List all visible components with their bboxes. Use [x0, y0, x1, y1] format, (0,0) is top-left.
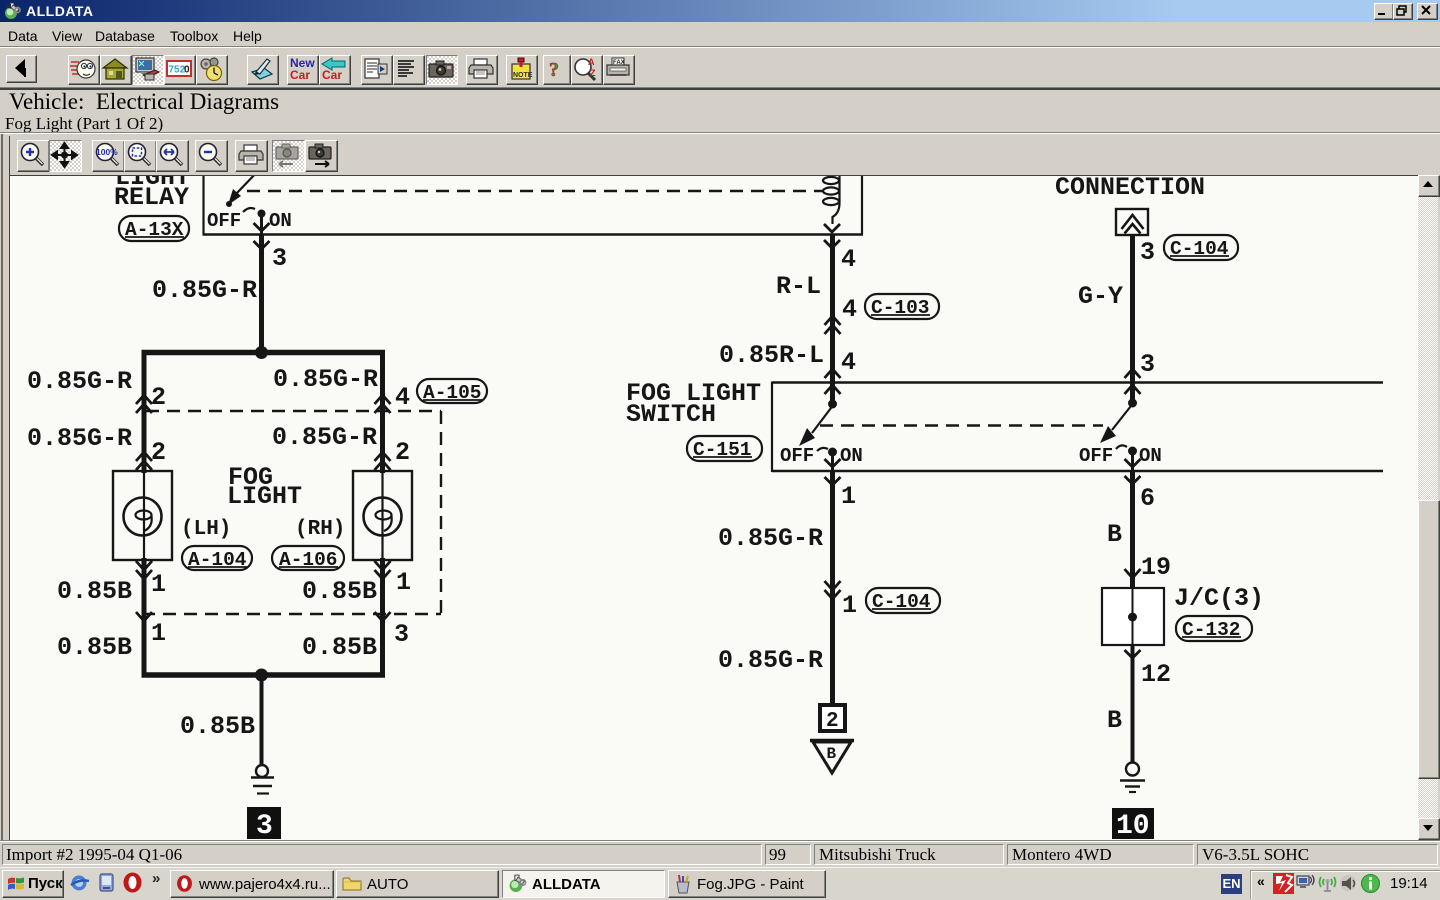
connector chevrons up on left wire [136, 395, 152, 404]
connector pass chevron down [824, 224, 840, 232]
tray: antivirus red [1273, 873, 1294, 894]
svg-text:A: A [588, 57, 595, 67]
7520 icon [164, 55, 196, 85]
switch S1 input contact node [828, 400, 837, 409]
start button [2, 870, 64, 898]
ground reference tag 10 [1112, 808, 1154, 842]
back button [6, 55, 37, 83]
connector label C-132 [1176, 616, 1252, 641]
fog light RH lamp E2 box [353, 471, 412, 560]
zoom out [195, 140, 228, 172]
window buttons [1374, 3, 1394, 20]
svg-text:4: 4 [842, 295, 857, 324]
wire S1 to ground tag (0.85G-R) [830, 471, 835, 705]
inter-system connector box with chevrons [1116, 209, 1148, 235]
switch S2 arm [1112, 404, 1133, 430]
switch S2 arm arrowhead [1100, 426, 1116, 443]
task button 2: AUTO folder [336, 870, 499, 898]
gears-clock icon [196, 55, 228, 85]
svg-text:0.85G-R: 0.85G-R [27, 424, 132, 453]
svg-text:B: B [1107, 706, 1122, 735]
wire S2 to junction block (B) [1130, 471, 1135, 589]
svg-text:0.85B: 0.85B [180, 712, 255, 741]
svg-text:0.85R-L: 0.85R-L [719, 341, 824, 370]
relay K1 coil-to-contact dashed link [247, 190, 822, 192]
tray: info [1360, 873, 1381, 894]
connector chevron up below switch box top [1125, 385, 1141, 394]
svg-text:1: 1 [151, 619, 166, 648]
switch S1 arm [812, 406, 833, 433]
svg-text:0.85G-R: 0.85G-R [27, 367, 132, 396]
tray: wifi antenna [1317, 873, 1338, 894]
svg-text:100%: 100% [96, 147, 118, 157]
pan tool (pressed) [49, 140, 82, 172]
svg-text:CONNECTION: CONNECTION [1055, 175, 1205, 202]
relay K1 OFF contact dot [226, 201, 232, 207]
connector pass chevron down [1125, 650, 1141, 658]
svg-text:2: 2 [395, 438, 410, 467]
svg-text:LIGHT: LIGHT [227, 482, 302, 511]
connector chevrons down below LH lamp [136, 561, 152, 570]
connector label C-104 [866, 588, 940, 613]
svg-text:3: 3 [1140, 350, 1155, 379]
connector pass chevron down [825, 459, 841, 467]
wire connector to switch (G-Y) [1130, 235, 1135, 403]
100% zoom [92, 140, 125, 172]
svg-text:4: 4 [395, 383, 410, 412]
relay K1 box right edge [861, 170, 863, 234]
fit width [156, 140, 189, 172]
wire S2 output upper segment [1131, 451, 1134, 472]
app icon [4, 2, 21, 20]
svg-text:0.85B: 0.85B [302, 577, 377, 606]
svg-text:OFF: OFF [207, 210, 241, 232]
svg-text:2: 2 [151, 383, 166, 412]
junction node bottom of fog light loop [255, 669, 268, 682]
ground reference tag 2 box [820, 705, 845, 733]
language indicator EN [1221, 874, 1242, 894]
fog light switch S1 box top edge [772, 381, 1383, 383]
connector chevrons down C-104 [825, 581, 841, 590]
svg-text:0.85G-R: 0.85G-R [272, 423, 377, 452]
svg-text:(RH): (RH) [295, 518, 345, 541]
svg-text:B: B [1107, 520, 1122, 549]
tray inset [1250, 870, 1440, 899]
svg-text:12: 12 [1141, 660, 1171, 689]
connector chevrons up above RH lamp [375, 452, 391, 461]
tray: network monitor [1296, 874, 1315, 893]
monitor-camera (pressed) [132, 55, 164, 85]
fog light loop bottom wire [142, 672, 386, 678]
zoom-in [17, 140, 50, 172]
svg-text:J/C(3): J/C(3) [1174, 584, 1264, 613]
relay K1 box left edge [202, 170, 204, 234]
svg-text:ON: ON [269, 210, 292, 232]
svg-text:Car: Car [322, 68, 342, 82]
camera prev (pressed/disabled) [272, 140, 305, 172]
wire relay output pin 3 upper segment [260, 213, 263, 236]
connector chevrons up C-103 [825, 316, 841, 325]
svg-text:OFF: OFF [1079, 445, 1113, 467]
switch linkage dashed line [820, 424, 1103, 426]
search A-Z icon [571, 55, 603, 85]
vertical scrollbar [1418, 175, 1438, 838]
switch S1 ON contact node [828, 448, 837, 457]
svg-text:4: 4 [841, 245, 856, 274]
svg-text:2: 2 [826, 710, 839, 733]
fax icon [603, 55, 635, 85]
fog light LH lamp E1 box [113, 471, 172, 560]
svg-text:3: 3 [256, 811, 273, 840]
quick launch: IE [69, 872, 90, 893]
svg-text:3: 3 [394, 620, 409, 649]
svg-text:10: 10 [1116, 811, 1150, 840]
svg-text:?: ? [549, 59, 559, 81]
connector label C-151 [687, 436, 762, 461]
help icon [543, 55, 571, 85]
svg-text:1: 1 [841, 482, 856, 511]
task button 4: Paint [668, 870, 826, 898]
fog light loop right wire [380, 350, 385, 473]
svg-text:1: 1 [396, 568, 411, 597]
relay K1 box bottom edge [203, 233, 864, 235]
task button 3: ALLDATA (active) [502, 870, 665, 898]
connector pass chevron down [254, 241, 270, 249]
connector label C-103 [865, 294, 939, 319]
svg-text:6: 6 [1140, 484, 1155, 513]
switch S1 arm arrowhead [799, 428, 815, 446]
svg-text:NOTE: NOTE [513, 72, 533, 79]
printer icon [466, 55, 498, 85]
harness dashed boundary bottom [142, 613, 441, 615]
svg-text:Z: Z [590, 68, 596, 78]
svg-text:SWITCH: SWITCH [626, 400, 716, 429]
junction node top of fog light loop [255, 346, 268, 359]
switch S1 contact tick [817, 448, 828, 451]
camera next [305, 140, 338, 172]
harness dashed boundary right [440, 411, 442, 614]
svg-text:3: 3 [1140, 238, 1155, 267]
fog light loop top wire [142, 350, 386, 356]
svg-text:0.85G-R: 0.85G-R [718, 524, 823, 553]
wire J/C to ground G2 (B) [1131, 645, 1135, 762]
camera (pressed) [426, 55, 458, 85]
ground symbol triangle B [810, 741, 854, 774]
wire coil to switch (R-L) [830, 234, 835, 404]
document-arrow icon [361, 55, 393, 85]
svg-text:1: 1 [151, 570, 166, 599]
quick launch: messenger [96, 872, 117, 893]
connector label C-104 [1164, 235, 1238, 260]
svg-text:Car: Car [290, 68, 310, 82]
connector label A-105 [417, 379, 487, 404]
svg-text:(LH): (LH) [181, 518, 231, 541]
relay K1 coil [823, 176, 840, 224]
junction block J/C(3) box [1102, 588, 1164, 645]
connector chevron up below switch box top [825, 385, 841, 394]
fog light RH lamp E2 bulb [381, 471, 383, 560]
wire to ground G1 [260, 675, 264, 766]
svg-text:0.85G-R: 0.85G-R [152, 276, 257, 305]
switch S2 input contact node [1128, 399, 1137, 408]
tray: volume [1338, 873, 1359, 894]
text lines icon [393, 55, 425, 85]
connector pass chevron down [1125, 459, 1141, 467]
svg-text:19: 19 [1141, 553, 1171, 582]
svg-text:0.85B: 0.85B [302, 633, 377, 662]
fog light switch S1 box bottom edge [772, 470, 1383, 472]
svg-text:ON: ON [840, 445, 863, 467]
svg-text:0.85G-R: 0.85G-R [718, 646, 823, 675]
relay K1 ON contact dot (node) [258, 210, 266, 218]
connector chevron up above switch box [1125, 369, 1141, 378]
svg-text:4: 4 [841, 348, 856, 377]
svg-text:OFF: OFF [780, 445, 814, 467]
relay K1 contact tick [243, 208, 255, 212]
connector chevron down into J/C [1125, 569, 1141, 578]
ground G1 symbol [251, 765, 274, 794]
quick launch: Opera [121, 871, 144, 894]
connector chevron up above switch box [825, 369, 841, 378]
svg-text:ON: ON [1139, 445, 1162, 467]
svg-text:2: 2 [151, 438, 166, 467]
connector pass chevron down [1125, 476, 1141, 484]
harness dashed boundary top [146, 410, 441, 412]
relay K1 switch arm arrowhead [228, 189, 241, 205]
svg-text:0.85B: 0.85B [57, 577, 132, 606]
clock [1390, 875, 1428, 892]
connector chevron down at harness exit right [375, 612, 391, 621]
fog light loop left wire [142, 350, 147, 473]
ground reference tag 3 [247, 807, 281, 842]
switch S2 ON contact node [1128, 447, 1137, 456]
relay K1 switch arm wire [236, 170, 259, 194]
connector pass chevron down [254, 223, 270, 231]
svg-text:0.85B: 0.85B [57, 633, 132, 662]
connector chevrons down below RH lamp [375, 561, 391, 570]
task button 1: opera site [170, 870, 334, 898]
switch S2 contact tick [1116, 445, 1127, 449]
svg-text:1: 1 [842, 591, 857, 620]
wire relay pin3 to fog light node (0.85G-R) [259, 235, 264, 353]
print [235, 140, 268, 172]
svg-text:B: B [827, 745, 837, 763]
svg-text:0.85G-R: 0.85G-R [273, 365, 378, 394]
Car back icon [319, 55, 351, 85]
svg-text:G-Y: G-Y [1078, 282, 1123, 311]
svg-text:0: 0 [184, 65, 190, 76]
connector chevrons up on right wire [375, 395, 391, 404]
connector label A-106 [272, 546, 344, 571]
mail-pen icon [247, 55, 279, 85]
connector pass chevron down [824, 240, 840, 248]
fit page [124, 140, 157, 172]
svg-text:3: 3 [272, 244, 287, 273]
New Car icon [287, 55, 319, 85]
connector label A-13X [119, 216, 189, 241]
wire S1 output upper segment [831, 452, 834, 472]
fog light LH lamp E1 bulb [143, 471, 145, 560]
left window edge lines [1, 134, 3, 842]
NOTE icon [506, 55, 538, 85]
svg-text:R-L: R-L [776, 272, 821, 301]
connector label A-104 [182, 546, 252, 571]
face icon [68, 55, 100, 85]
connector chevrons up above LH lamp [136, 452, 152, 461]
fog light switch S1 box left edge [771, 382, 773, 473]
house icon [100, 55, 132, 85]
connector pass chevron down [825, 477, 841, 485]
svg-text:RELAY: RELAY [114, 183, 189, 212]
connector chevron down at harness exit left [136, 612, 152, 621]
ground G2 symbol [1120, 763, 1145, 793]
